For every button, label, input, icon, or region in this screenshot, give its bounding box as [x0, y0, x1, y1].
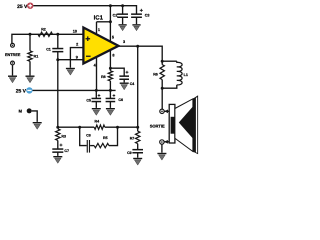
- svg-text:R1: R1: [34, 55, 39, 59]
- svg-text:1: 1: [98, 28, 100, 32]
- svg-text:R8: R8: [101, 75, 106, 79]
- svg-text:C4: C4: [130, 82, 135, 86]
- svg-text:C7: C7: [64, 149, 69, 153]
- svg-text:R3: R3: [61, 135, 66, 139]
- svg-text:9: 9: [76, 56, 78, 60]
- svg-text:ENTREE: ENTREE: [5, 53, 21, 57]
- svg-text:C6: C6: [118, 98, 123, 102]
- svg-text:IC1: IC1: [94, 15, 104, 22]
- svg-text:5: 5: [112, 36, 114, 40]
- svg-text:25 V: 25 V: [16, 88, 27, 94]
- svg-text:2: 2: [76, 43, 78, 47]
- svg-text:C5: C5: [86, 98, 91, 102]
- svg-text:C2: C2: [113, 14, 118, 18]
- svg-text:R6: R6: [153, 73, 158, 77]
- svg-text:3: 3: [123, 40, 125, 44]
- svg-text:L1: L1: [184, 73, 188, 77]
- svg-text:10: 10: [73, 30, 77, 34]
- svg-text:C9: C9: [127, 151, 132, 155]
- svg-text:R5: R5: [103, 136, 108, 140]
- svg-text:R4: R4: [94, 119, 99, 123]
- svg-text:R2: R2: [41, 28, 46, 32]
- svg-text:C8: C8: [86, 134, 91, 138]
- svg-text:R7: R7: [130, 136, 135, 140]
- svg-text:C3: C3: [145, 14, 150, 18]
- svg-text:C1: C1: [46, 48, 51, 52]
- svg-text:8: 8: [112, 54, 114, 58]
- svg-text:25 V: 25 V: [17, 4, 28, 10]
- svg-text:SORTIE: SORTIE: [150, 124, 165, 129]
